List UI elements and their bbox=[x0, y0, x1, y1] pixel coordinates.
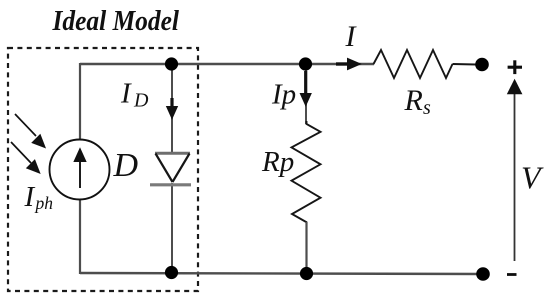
diode cathode bar bbox=[150, 183, 191, 186]
svg-text:I: I bbox=[120, 78, 132, 110]
svg-text:R: R bbox=[404, 84, 423, 117]
voltage arrow V (up) bbox=[507, 79, 523, 261]
diode D (triangle) bbox=[155, 152, 190, 155]
wire Rs to + terminal bbox=[453, 63, 477, 66]
svg-text:Ideal Model: Ideal Model bbox=[52, 6, 180, 37]
arrow ID (diode current, down) bbox=[167, 98, 178, 119]
node top of Rp branch bbox=[299, 57, 312, 70]
terminal - node bbox=[476, 267, 490, 281]
wire Rp branch upper bbox=[305, 64, 307, 124]
resistor Rs (zigzag) bbox=[374, 50, 453, 78]
current source arrow (up) bbox=[75, 150, 85, 189]
arrow Ip (shunt current, down) bbox=[300, 71, 311, 106]
light ray arrow 2 bbox=[11, 142, 40, 173]
svg-text:ph: ph bbox=[34, 193, 54, 213]
wire bottom (node B: common return) bbox=[80, 273, 483, 274]
terminal label - bbox=[507, 273, 517, 276]
svg-text:s: s bbox=[423, 97, 431, 119]
wire diode branch upper bbox=[171, 64, 173, 153]
svg-text:Ip: Ip bbox=[271, 79, 296, 111]
wire left vertical (Iph branch) bbox=[79, 63, 81, 140]
node bottom of diode branch bbox=[165, 266, 178, 279]
terminal label + bbox=[508, 60, 522, 74]
current source Iph (circle) bbox=[50, 140, 110, 200]
wire top (node A: from left branch to Rs) bbox=[80, 63, 374, 65]
ideal model boundary (dashed box) bbox=[8, 48, 198, 291]
terminal + node bbox=[475, 58, 489, 72]
svg-text:D: D bbox=[113, 147, 139, 184]
node bottom of Rp branch bbox=[300, 267, 313, 280]
resistor Rp (zigzag) bbox=[292, 121, 321, 223]
svg-text:I: I bbox=[24, 181, 36, 213]
arrow I (output current, right) bbox=[336, 58, 361, 69]
wire diode branch lower bbox=[171, 183, 173, 274]
node top of diode branch bbox=[165, 57, 178, 70]
svg-text:D: D bbox=[133, 90, 149, 112]
svg-text:Rp: Rp bbox=[261, 146, 294, 178]
wire Rp branch lower bbox=[305, 222, 307, 274]
light ray arrow 1 bbox=[15, 114, 45, 148]
